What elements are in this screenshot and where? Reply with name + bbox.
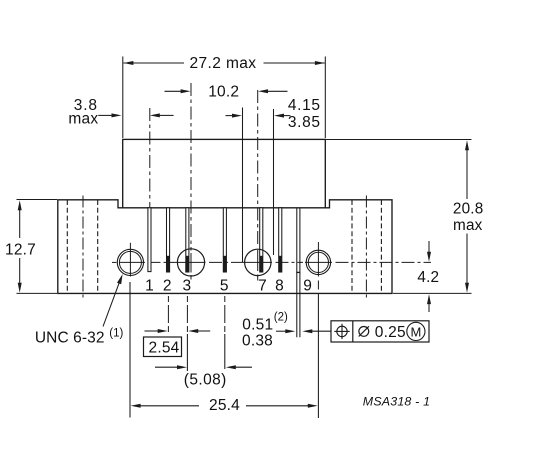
svg-text:3.85: 3.85: [288, 114, 321, 131]
diameter symbol: [359, 327, 369, 337]
extension line 4.15 left: [242, 108, 244, 263]
pin 2: [167, 208, 170, 272]
svg-text:0.25: 0.25: [375, 324, 406, 341]
dimension 2.54: [145, 330, 160, 332]
svg-text:3: 3: [182, 278, 191, 295]
svg-text:M: M: [410, 324, 421, 339]
svg-text:0.51: 0.51: [242, 317, 273, 334]
svg-text:10.2: 10.2: [208, 84, 239, 101]
mounting hole D double circle: [306, 250, 330, 274]
pin 7: [260, 208, 263, 272]
pin 1 center line: [149, 108, 151, 207]
feature control frame box: [331, 321, 429, 342]
svg-text:max: max: [68, 111, 98, 128]
svg-text:0.38: 0.38: [242, 333, 273, 350]
hole C center line: [257, 90, 259, 244]
svg-text:UNC 6-32: UNC 6-32: [35, 329, 105, 346]
pin 8: [279, 208, 282, 272]
UNC leader arrow: [103, 283, 119, 326]
hidden hole right edge: [351, 200, 353, 293]
dimension 10.2: [165, 90, 288, 92]
hole B circle: [177, 249, 204, 276]
dimension 12.7: [17, 199, 58, 201]
svg-text:25.4: 25.4: [209, 397, 240, 414]
svg-text:9: 9: [303, 278, 312, 295]
dimension 25.4: [129, 282, 131, 418]
2.54 box: [144, 337, 182, 357]
flange (base plate) outline: [58, 200, 392, 294]
svg-text:(2): (2): [274, 311, 288, 323]
hole D center line: [317, 242, 319, 277]
svg-text:5: 5: [220, 278, 229, 295]
hidden hole right edge2: [380, 200, 382, 293]
svg-text:max: max: [453, 217, 483, 234]
extension line 4.15 right: [273, 109, 275, 255]
hidden hole left edge: [66, 200, 68, 293]
svg-text:(5.08): (5.08): [184, 371, 227, 388]
hole C circle: [245, 249, 271, 275]
pin 2 center extension: [167, 296, 169, 333]
svg-text:27.2 max: 27.2 max: [190, 55, 257, 72]
pin 5: [223, 208, 226, 272]
dimension (5.08): [155, 366, 179, 368]
pin 3 center extension: [186, 296, 188, 334]
M modifier circle: [407, 322, 425, 340]
right hole center line: [365, 196, 367, 298]
position symbol: [337, 326, 347, 336]
pin 3: [186, 208, 189, 272]
svg-text:2.54: 2.54: [149, 339, 180, 356]
dimension 27.2 max: [123, 57, 325, 139]
svg-text:8: 8: [275, 278, 284, 295]
dimension 4.2: [428, 241, 430, 254]
svg-text:MSA318 - 1: MSA318 - 1: [363, 395, 430, 409]
hole B center line: [190, 83, 192, 244]
mounting hole A (UNC 6-32) double circle: [117, 249, 143, 275]
svg-text:4.15: 4.15: [288, 97, 321, 114]
left hole center line: [82, 196, 84, 298]
svg-text:2: 2: [163, 278, 172, 295]
pin 9: [296, 208, 298, 337]
dimension 20.8 max: [326, 139, 472, 141]
svg-text:12.7: 12.7: [5, 241, 36, 258]
svg-text:4.2: 4.2: [417, 269, 439, 286]
package body: [123, 139, 326, 207]
hidden hole left edge2: [97, 200, 99, 293]
svg-text:1: 1: [145, 278, 154, 295]
pin 5 center extension: [224, 296, 226, 334]
svg-text:7: 7: [258, 278, 267, 295]
svg-text:(1): (1): [109, 328, 123, 340]
hole A center line: [129, 243, 131, 277]
pin 1: [148, 208, 151, 272]
horizontal center line through holes: [112, 261, 431, 263]
svg-text:20.8: 20.8: [453, 200, 484, 217]
